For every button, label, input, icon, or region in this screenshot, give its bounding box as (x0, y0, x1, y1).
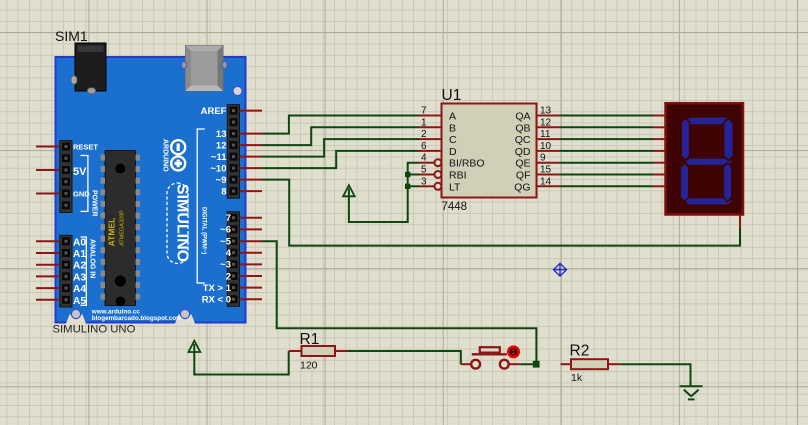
svg-text:A3: A3 (73, 272, 86, 283)
svg-text:AREF: AREF (201, 106, 227, 117)
svg-text:120: 120 (300, 360, 318, 372)
svg-text:SIMULINO: SIMULINO (174, 184, 191, 262)
svg-text:2: 2 (421, 129, 427, 140)
svg-text:~5: ~5 (220, 237, 232, 248)
svg-text:QA: QA (515, 111, 530, 123)
arduino left pin stubs (36, 147, 60, 300)
svg-text:RBI: RBI (449, 170, 467, 182)
7-segment display body (666, 103, 744, 214)
svg-text:A1: A1 (73, 249, 86, 260)
junction RBI (405, 172, 410, 177)
svg-text:SIMULINO UNO: SIMULINO UNO (53, 324, 136, 336)
svg-text:A2: A2 (73, 261, 86, 272)
svg-text:12: 12 (540, 117, 552, 128)
SIMULINO text capsule (167, 183, 191, 264)
svg-text:D: D (449, 146, 457, 158)
svg-text:LT: LT (449, 181, 461, 193)
svg-text:A0: A0 (73, 237, 86, 248)
wire 10 to D (262, 151, 419, 168)
wire 9 to display common (262, 180, 740, 246)
wire stub RBI (408, 174, 419, 176)
U1 right pin stubs (537, 116, 560, 187)
svg-text:R1: R1 (300, 331, 320, 348)
U1 left pin stubs (419, 116, 442, 190)
wire 12 to B (262, 127, 419, 145)
arduino logo (171, 140, 185, 170)
svg-text:11: 11 (540, 129, 551, 140)
svg-text:QG: QG (514, 181, 530, 193)
analog header A0-A5 (60, 235, 72, 307)
wire 11 to C (262, 139, 419, 157)
svg-text:13: 13 (216, 129, 227, 140)
ground symbol (680, 386, 703, 399)
IC U1 7448 (442, 87, 537, 213)
svg-text:QC: QC (515, 134, 531, 146)
svg-text:~3: ~3 (220, 260, 231, 271)
svg-text:R2: R2 (570, 343, 590, 360)
svg-text:~6: ~6 (220, 225, 231, 236)
svg-text:8: 8 (221, 186, 226, 197)
svg-text:ARDUINO: ARDUINO (162, 139, 169, 172)
svg-text:DIGITAL (PWM~): DIGITAL (PWM~) (201, 207, 207, 254)
arduino right pin stubs (240, 111, 263, 300)
usb connector (181, 46, 227, 92)
svg-text:ANALOG IN: ANALOG IN (89, 239, 96, 278)
push button (461, 347, 521, 369)
svg-text:ATMEL: ATMEL (107, 218, 117, 247)
svg-text:U1: U1 (442, 87, 462, 104)
svg-text:12: 12 (216, 140, 227, 151)
svg-text:A: A (449, 111, 456, 123)
origin marker (554, 263, 567, 276)
arduino board SIM1 (56, 57, 246, 324)
svg-text:RESET: RESET (73, 142, 98, 151)
display left pin stubs (654, 116, 666, 187)
svg-text:6: 6 (421, 141, 427, 152)
junction button/R2/pin5 (533, 361, 540, 368)
svg-text:9: 9 (540, 153, 546, 164)
digital header upper (AREF..8) (227, 105, 239, 199)
wire power to BI/RBO RBI LT (349, 163, 419, 222)
resistor R2 (561, 343, 621, 385)
wire stub LT (408, 185, 419, 187)
svg-text:5V: 5V (73, 166, 87, 178)
svg-text:QD: QD (515, 146, 531, 158)
board silkscreen labels (73, 106, 232, 307)
svg-text:RX < 0: RX < 0 (202, 295, 231, 306)
svg-text:1: 1 (421, 117, 427, 128)
svg-text:4: 4 (226, 248, 232, 259)
power header (RESET 5V GND) (60, 141, 72, 213)
svg-text:~11: ~11 (211, 152, 227, 163)
display segments (680, 117, 734, 205)
svg-text:TX > 1: TX > 1 (203, 283, 232, 294)
svg-text:QF: QF (516, 170, 531, 182)
svg-text:15: 15 (540, 165, 552, 176)
svg-text:4: 4 (421, 153, 427, 164)
wire power to R1 (194, 344, 288, 375)
digital header lower (7..0) (227, 212, 239, 307)
atmega chip (101, 151, 140, 307)
svg-text:2: 2 (226, 271, 231, 282)
svg-text:~9: ~9 (216, 175, 227, 186)
svg-text:7: 7 (421, 106, 427, 117)
svg-text:POWER: POWER (91, 190, 98, 216)
svg-text:blogembarcado.blogspot.com: blogembarcado.blogspot.com (92, 315, 182, 322)
power terminal near R1 (189, 341, 201, 352)
display bottom pin stub (739, 215, 741, 229)
svg-text:B: B (449, 122, 456, 134)
svg-text:1k: 1k (571, 372, 583, 384)
wire 5 to button junction (262, 241, 536, 364)
svg-text:5: 5 (421, 165, 427, 176)
svg-text:13: 13 (540, 106, 552, 117)
resistor R1 (289, 331, 348, 372)
svg-text:A4: A4 (73, 284, 86, 295)
junction LT (405, 184, 410, 189)
U1 pin numbers (421, 106, 552, 188)
dc power jack (71, 43, 106, 94)
svg-text:~10: ~10 (210, 163, 226, 174)
svg-text:10: 10 (540, 141, 552, 152)
svg-text:QB: QB (515, 122, 530, 134)
svg-text:ATMEGA328P: ATMEGA328P (120, 210, 126, 246)
svg-text:BI/RBO: BI/RBO (449, 158, 485, 170)
svg-text:QE: QE (515, 158, 530, 170)
svg-text:3: 3 (421, 176, 427, 187)
svg-text:7: 7 (226, 213, 231, 224)
svg-text:7448: 7448 (442, 201, 468, 213)
wires U1 outputs to display (560, 116, 654, 187)
wire R2 to ground (620, 364, 690, 385)
wire 13 to A (262, 116, 419, 134)
wire button to junction (520, 363, 536, 365)
svg-text:14: 14 (540, 176, 552, 187)
wire R1 to button (348, 351, 461, 364)
power terminal near U1 (343, 185, 355, 196)
svg-text:SIM1: SIM1 (55, 28, 88, 44)
svg-text:C: C (449, 134, 457, 146)
